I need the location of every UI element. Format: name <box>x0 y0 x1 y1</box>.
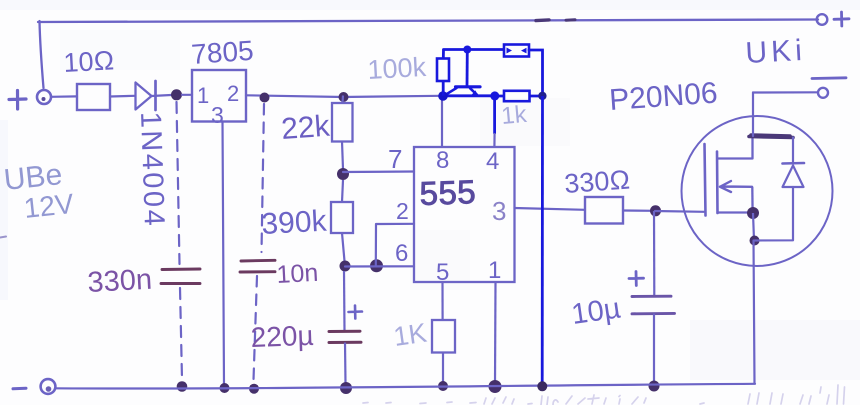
MOSFET bottom stub <box>718 211 753 213</box>
capacitor C 10u <box>632 296 675 314</box>
blue node top <box>463 46 471 54</box>
node 10u ground <box>649 381 660 392</box>
wire dashed line diode junction to C 330n <box>177 102 180 264</box>
wire node to 10u <box>653 211 655 296</box>
blue wire pin 4 <box>493 96 496 134</box>
wire 1K to ground <box>442 353 444 385</box>
capacitor C 220u <box>329 331 361 342</box>
blue boxed diode D3 <box>504 45 529 57</box>
wire 7805 pin3 to ground <box>223 122 225 387</box>
svg-text:UKi: UKi <box>745 34 807 70</box>
node junction 22k top <box>339 92 349 102</box>
resistor 22k <box>332 103 353 142</box>
wire pin 8 to rail <box>441 96 443 147</box>
node source <box>747 207 759 219</box>
blue wire rail segment <box>444 94 495 97</box>
wire 5V rail from 7805 pin2 <box>246 95 441 97</box>
svg-text:555: 555 <box>419 173 477 212</box>
MOSFET source stub with arrow <box>720 181 752 192</box>
resistor 1K <box>432 320 455 353</box>
node junction pin2/pin6 <box>370 259 383 272</box>
node junction gate/10u <box>650 205 661 216</box>
node 7805 pin3 ground <box>220 383 230 393</box>
terminal - output right <box>818 88 828 98</box>
node junction after diode <box>171 89 182 100</box>
svg-text:1: 1 <box>488 257 501 284</box>
node source diode junction <box>750 236 760 246</box>
resistor 100k blue <box>437 59 449 82</box>
wire bottom ground rail <box>55 384 755 389</box>
node pin1 ground <box>489 380 502 393</box>
capacitor C 10n <box>240 260 275 272</box>
wire 22k to node7 <box>342 142 343 170</box>
wire node to gate <box>655 210 704 213</box>
node junction 390k/pin6 <box>340 261 351 272</box>
IC U1 555 <box>414 147 515 282</box>
MOSFET drain stub <box>718 137 753 159</box>
MOSFET gate plate <box>705 144 706 216</box>
wire rail to 22k <box>341 96 344 104</box>
terminal - input left <box>13 387 26 391</box>
wire dashed 7805out to C 10n <box>262 104 265 252</box>
blue wire diode to right vertical <box>529 50 543 96</box>
node junction pin7 <box>337 168 349 180</box>
node 10n ground <box>249 384 259 394</box>
svg-text:3: 3 <box>492 196 506 226</box>
svg-text:2: 2 <box>396 198 409 224</box>
node drain junction thick <box>749 135 793 138</box>
wire top supply rail <box>38 20 818 89</box>
svg-text:1K: 1K <box>392 318 429 352</box>
resistor 330 ohm <box>585 197 623 224</box>
body diode D2 <box>783 166 804 188</box>
node smudges on top rail <box>536 18 575 22</box>
MOSFET channel <box>716 152 719 214</box>
blue wire base <box>466 50 469 87</box>
svg-text:4: 4 <box>486 148 499 175</box>
wire 330ohm to gate node <box>623 209 655 212</box>
wire source to ground rail <box>754 241 755 384</box>
diode D1 1N4004 <box>136 81 172 110</box>
transistor Q1 base bar <box>456 85 481 88</box>
svg-text:220µ: 220µ <box>250 320 314 353</box>
capacitor C 330n <box>161 269 200 284</box>
wire dashed 330n to ground <box>180 288 182 379</box>
svg-text:100k: 100k <box>367 52 428 85</box>
blue node pin4 junction <box>490 91 499 100</box>
pencil marks bottom <box>363 385 845 405</box>
svg-text:10µ: 10µ <box>570 292 623 331</box>
regulator U2 7805 <box>192 70 246 122</box>
wire 390k to node6 <box>342 233 345 261</box>
blue overlay: wire top <box>444 48 504 51</box>
node 330n ground <box>177 381 188 392</box>
svg-text:2: 2 <box>227 81 239 106</box>
node junction 7805 output <box>260 93 270 103</box>
svg-text:10n: 10n <box>276 259 319 289</box>
MOSFET source vertical <box>751 187 754 213</box>
wire pin 5 to 1K <box>441 282 443 320</box>
terminal + output top right <box>817 12 849 26</box>
svg-text:8: 8 <box>436 147 449 174</box>
resistor 390k <box>331 202 353 233</box>
resistor 10 ohm <box>77 84 110 110</box>
wire pin 1 to ground <box>494 282 497 384</box>
node 220u ground <box>340 382 352 394</box>
svg-text:330Ω: 330Ω <box>563 164 631 199</box>
blue wire right vertical to ground <box>541 96 544 386</box>
svg-text:6: 6 <box>395 240 408 267</box>
wire 10ohm to diode <box>110 95 135 98</box>
wire 220u to ground <box>344 343 347 384</box>
wire source down <box>753 213 754 240</box>
terminal + input left <box>9 90 51 109</box>
svg-text:P20N06: P20N06 <box>608 77 718 117</box>
svg-text:1: 1 <box>197 83 209 108</box>
svg-text:7805: 7805 <box>190 35 254 70</box>
blue node emitter junction <box>438 91 448 101</box>
capacitor C 220u plus sign <box>349 306 363 319</box>
wire drain to output terminal <box>752 93 754 137</box>
capacitor C 10u plus sign <box>629 272 644 286</box>
wire pin 7 <box>343 170 414 173</box>
wire pin 2 <box>376 224 414 266</box>
wire to body diode <box>755 187 794 241</box>
stray mark left edge <box>0 237 6 238</box>
transistor Q1 collector with arrow <box>470 88 477 95</box>
svg-text:5: 5 <box>436 259 449 286</box>
svg-text:390k: 390k <box>261 205 329 241</box>
node blue ground <box>537 381 547 391</box>
svg-text:22k: 22k <box>280 110 332 146</box>
svg-text:1k: 1k <box>500 101 529 130</box>
wire to - terminal <box>753 91 818 93</box>
wire node6 to 220u <box>343 271 346 331</box>
svg-text:1N4004: 1N4004 <box>134 111 170 229</box>
svg-text:330n: 330n <box>87 264 153 299</box>
MOSFET T1 P20N06 circle <box>682 116 833 266</box>
svg-text:10Ω: 10Ω <box>63 45 115 78</box>
wire 10u to ground <box>653 314 655 384</box>
wire input to R 10ohm <box>51 95 77 98</box>
resistor 1k blue <box>504 91 530 101</box>
wire pin 3 output <box>515 208 586 210</box>
svg-text:7: 7 <box>388 144 402 174</box>
wire node7 to 390k <box>342 180 343 202</box>
wire dashed 10n to ground <box>254 276 258 380</box>
wire diode junction to 7805 <box>182 94 192 96</box>
wire pin 6 <box>345 265 414 267</box>
svg-text:12V: 12V <box>22 188 75 224</box>
transistor Q1 emitter <box>444 88 457 96</box>
node 1K ground <box>438 381 448 391</box>
blue node 1k right <box>538 92 546 100</box>
